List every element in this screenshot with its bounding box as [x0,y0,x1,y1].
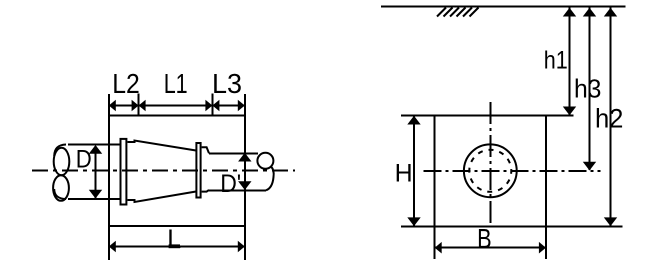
arrows bottom L dimension [109,241,116,253]
horizontal centerline [424,170,601,172]
arrow D' down [238,181,251,190]
arrow D down [89,190,102,199]
svg-text:D: D [76,146,92,174]
svg-text:D': D' [220,170,241,198]
arrows at L1/L3 divider [205,100,212,112]
break curve left (figure 8) [54,145,66,157]
neck + cone bottom edge [128,192,197,203]
small cylinder top edge [209,152,258,154]
ground hatch marks [437,8,479,17]
dimension line h1 [569,8,571,115]
extension line L2/L1 [138,94,140,116]
shank big section top edge [68,144,120,146]
arrow at right box edge pointing right [238,100,245,112]
break curve right: loop [257,153,273,169]
arrow H down [407,217,420,226]
break curve right: S tail [266,167,274,191]
extension line L1/L3 [211,94,213,116]
extension line top-left (H) [401,115,435,117]
arrow h2 down [604,217,617,226]
ground surface line [381,6,626,8]
svg-text:L3: L3 [212,68,242,99]
dimension line L2 L1 L3 [109,105,245,107]
svg-text:H: H [395,160,413,188]
extension line B left [434,226,436,259]
step after collar 2 top [202,147,209,153]
svg-text:B: B [477,223,492,254]
extension line B right [545,226,547,259]
holder box right edge / extension line [244,94,246,260]
arrow at left box edge pointing left [109,100,116,112]
centerline left view [32,170,295,172]
dimension line h2 [610,8,612,226]
arrow B right [539,242,546,254]
extension line top-right (h1) [546,115,574,117]
arrow h3 up [583,8,596,17]
arrow h1 down [563,107,576,116]
dimension D line [95,146,97,198]
vertical centerline [489,102,491,227]
shank big section bottom edge [68,198,120,200]
arrow h3 down [583,162,596,171]
svg-text:L: L [167,224,181,254]
small cylinder bottom edge [209,189,266,191]
step after collar 2 bottom [202,190,209,192]
arrow D' up [238,153,251,162]
dimension B line [435,247,546,249]
collar 1 [121,139,127,205]
arrow h2 up [604,8,617,17]
arrows at L2/L1 divider [132,100,139,112]
arrow B left [435,242,442,254]
shank hole outer circle [464,144,517,197]
neck + cone top edge [128,141,197,151]
arrow h1 up [563,8,576,17]
dimension line h3 [589,8,591,170]
svg-text:h2: h2 [595,104,624,134]
collar 2 [196,143,200,198]
holder square [435,116,546,227]
svg-text:h3: h3 [574,74,602,104]
dimension H line [413,117,415,226]
svg-text:L1: L1 [164,68,188,99]
holder box bottom edge [108,225,246,227]
shank inner dashed circle [469,150,511,192]
arrow H up [407,116,420,125]
svg-text:L2: L2 [112,68,140,99]
dimension line L [109,246,245,248]
holder box top edge [108,115,246,117]
svg-text:h1: h1 [544,47,568,75]
holder box left edge / extension line [108,94,110,260]
arrow D up [89,145,102,154]
extension line bottom long (H, h2) [401,225,623,227]
